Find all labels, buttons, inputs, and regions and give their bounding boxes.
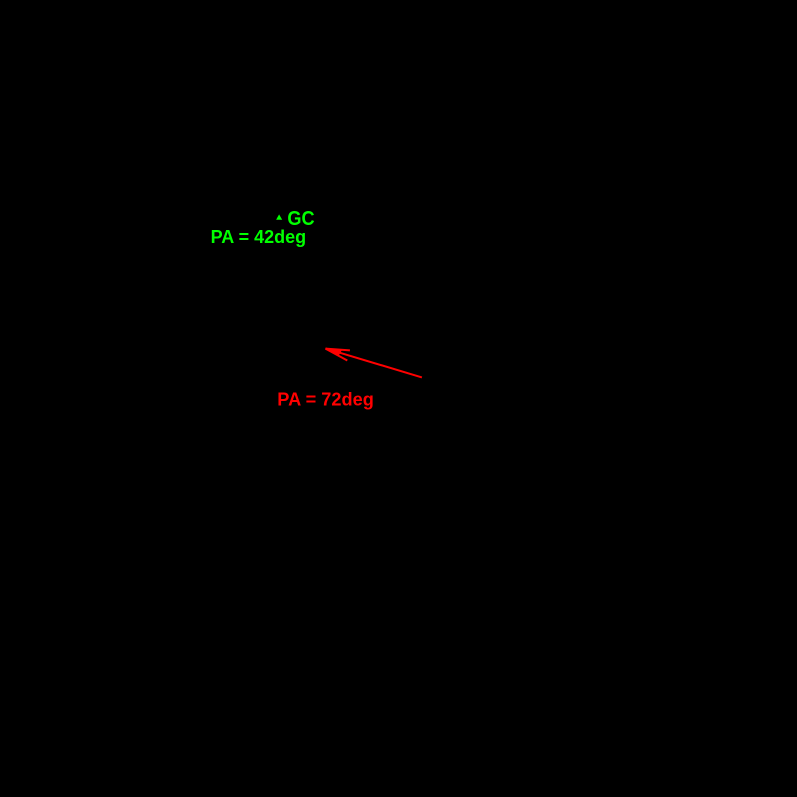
- arrow lower barb: [326, 349, 348, 361]
- svg-text:PA = 42deg: PA = 42deg: [211, 227, 307, 247]
- marker triangle GC position: [276, 214, 282, 219]
- arrow shaft: [326, 348, 422, 377]
- arrow solid head: [325, 348, 342, 356]
- arrow upper barb: [326, 349, 350, 351]
- svg-text:PA = 72deg: PA = 72deg: [277, 390, 374, 410]
